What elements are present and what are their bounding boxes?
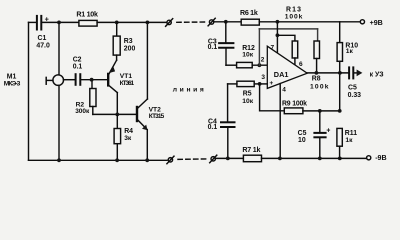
node pin 4 bottom <box>278 157 282 161</box>
wire R13 top jog <box>277 35 295 41</box>
wire R2 top lead <box>91 80 93 89</box>
op-amp DA1 <box>261 45 307 94</box>
svg-text:КТ361: КТ361 <box>120 80 135 87</box>
svg-text:+: + <box>326 127 330 134</box>
svg-text:200: 200 <box>124 46 136 53</box>
svg-text:3: 3 <box>261 74 265 81</box>
wire bottom rail right 2 <box>262 157 367 159</box>
node mic bottom junction <box>57 158 61 162</box>
wire pin 7 <box>276 22 278 53</box>
svg-text:МКЭ-3: МКЭ-3 <box>4 81 21 88</box>
svg-text:C1: C1 <box>38 35 47 42</box>
resistor R1 10k <box>76 11 98 26</box>
resistor R9 100k <box>282 101 307 114</box>
resistor R3 200 <box>113 36 135 55</box>
wire pin 3 <box>260 83 268 85</box>
wire R13 bottom lead <box>294 58 296 65</box>
svg-text:R13: R13 <box>286 6 301 13</box>
wire top rail C1 to R1 <box>42 21 79 23</box>
connector top right <box>208 18 215 26</box>
transistor VT1 КТ361 <box>108 60 134 92</box>
wire dashed line bottom <box>178 158 209 161</box>
wire R12 to pin 2 <box>252 64 267 66</box>
node VT2 emitter bottom <box>145 158 149 162</box>
svg-text:10к: 10к <box>242 51 253 58</box>
wire R2 bottom lead <box>92 107 94 115</box>
resistor R4 3k <box>114 114 133 160</box>
wire pin 4 <box>279 84 281 159</box>
resistor R12 10k <box>237 45 255 68</box>
svg-text:к УЗ: к УЗ <box>370 71 384 78</box>
capacitor C4 <box>208 84 235 158</box>
svg-text:0.1: 0.1 <box>73 63 83 70</box>
resistor R10 1k <box>337 22 358 111</box>
capacitor C1 <box>36 15 50 50</box>
wire base node horizontal <box>93 113 137 115</box>
resistor R6 1k <box>240 9 259 25</box>
svg-text:линия: линия <box>173 87 206 94</box>
svg-text:C5: C5 <box>348 84 357 91</box>
node pin 2 junction <box>258 63 262 67</box>
svg-text:R9 100k: R9 100k <box>282 101 307 108</box>
svg-text:+9В: +9В <box>370 19 383 27</box>
wire VT2 emitter down <box>146 130 148 161</box>
output arrow к УЗ <box>354 70 384 79</box>
svg-text:4: 4 <box>282 87 286 94</box>
svg-text:R6 1k: R6 1k <box>240 9 258 17</box>
node R10 output junction <box>338 71 342 75</box>
svg-text:100k: 100k <box>285 14 303 21</box>
wire C2 to VT1 base <box>81 79 108 81</box>
wire R6 to +9V rail <box>259 21 360 23</box>
svg-text:10к: 10к <box>242 98 253 105</box>
resistor R7 1k <box>242 146 261 162</box>
terminal +9V <box>360 19 383 27</box>
svg-text:1к: 1к <box>346 48 354 55</box>
capacitor C6 0.33 <box>348 67 362 99</box>
svg-text:R3: R3 <box>124 38 133 45</box>
wire output <box>307 72 349 74</box>
svg-text:100k: 100k <box>310 84 329 91</box>
connector top left <box>166 19 173 27</box>
svg-text:1к: 1к <box>345 137 353 144</box>
resistor R5 10k <box>228 81 260 105</box>
wire VT1 collector down <box>116 93 118 115</box>
microphone M1 МКЭ-3 <box>4 74 64 88</box>
node mic top junction <box>57 21 61 25</box>
node R13 tap <box>276 33 280 37</box>
svg-text:3к: 3к <box>124 135 132 142</box>
svg-text:2: 2 <box>261 56 265 63</box>
wire top rail to connector <box>117 21 167 23</box>
node divider join <box>338 109 342 113</box>
capacitor C5 10 <box>298 111 331 158</box>
wire top rail right section <box>214 21 241 23</box>
node R8 bottom junction <box>315 71 319 75</box>
svg-text:R8: R8 <box>312 76 321 83</box>
svg-text:DA1: DA1 <box>274 70 289 79</box>
wire left rail <box>28 22 30 160</box>
node C4 bottom <box>226 157 230 161</box>
node C3 top <box>224 20 228 24</box>
svg-text:КТ315: КТ315 <box>149 113 165 120</box>
svg-text:R5: R5 <box>243 91 252 98</box>
svg-text:R7 1k: R7 1k <box>242 146 260 154</box>
wire top rail left segment to C1 <box>29 21 37 23</box>
resistor R13 100k <box>285 6 303 58</box>
capacitor C3 <box>208 22 234 65</box>
resistor R11 1k <box>337 128 357 158</box>
svg-text:0.1: 0.1 <box>208 124 218 131</box>
capacitor C2 <box>73 56 83 84</box>
wire pin 3 node down <box>260 84 285 111</box>
node VT1 base junction <box>90 78 94 82</box>
transistor VT2 КТ315 <box>137 99 165 130</box>
node R3 top <box>115 21 119 25</box>
node pin 3 junction <box>258 82 262 86</box>
resistor R2 300k <box>75 89 96 115</box>
svg-text:R1 10k: R1 10k <box>76 11 98 19</box>
connector bottom left <box>167 156 174 164</box>
svg-text:7: 7 <box>271 45 275 52</box>
wire mic to C2 <box>64 79 76 81</box>
svg-text:VT1: VT1 <box>120 73 133 80</box>
terminal -9V <box>367 154 387 162</box>
svg-text:М1: М1 <box>7 74 17 81</box>
node R4 bottom <box>115 158 119 162</box>
svg-text:0.33: 0.33 <box>348 92 362 99</box>
node R11 bottom <box>338 157 342 161</box>
wire mic bottom lead <box>58 85 60 160</box>
wire R9 right to divider <box>303 110 340 112</box>
wire R3 bottom lead <box>116 55 118 60</box>
svg-text:-9В: -9В <box>375 154 386 162</box>
svg-text:10: 10 <box>298 137 306 144</box>
wire bottom rail left <box>29 159 168 161</box>
resistor R8 100k <box>310 41 329 91</box>
svg-text:R11: R11 <box>345 130 357 137</box>
node C5 bottom <box>318 157 322 161</box>
svg-text:C5: C5 <box>298 130 307 137</box>
wire mic top lead <box>58 22 60 75</box>
node VT2 collector top <box>146 21 150 25</box>
node VT1 collector / R4 / VT2 base <box>115 113 119 117</box>
svg-text:+: + <box>269 80 273 87</box>
wire VT2 collector up <box>146 22 148 99</box>
svg-text:C2: C2 <box>73 56 82 63</box>
wire feedback vertical to R8 <box>259 29 317 65</box>
wire R1 to R3 node <box>97 21 117 23</box>
node C5 top <box>318 109 322 113</box>
wire C3 to R12 <box>226 64 237 66</box>
svg-text:47.0: 47.0 <box>36 43 50 50</box>
wire bottom rail right <box>215 157 243 159</box>
node pin 7 top <box>276 20 280 24</box>
svg-text:300к: 300к <box>75 108 90 115</box>
svg-text:0.1: 0.1 <box>208 44 218 51</box>
wire R3 top lead <box>116 22 118 36</box>
connector bottom right <box>210 155 217 163</box>
wire dashed line top <box>177 21 207 23</box>
svg-text:6: 6 <box>299 61 303 68</box>
